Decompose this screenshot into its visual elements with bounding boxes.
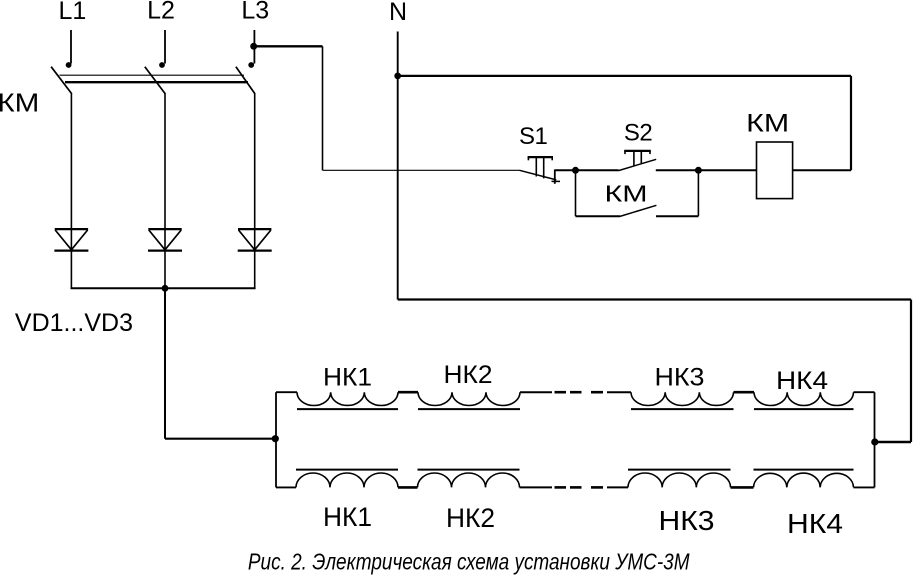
wire N right drop	[910, 300, 912, 443]
svg-text:КМ: КМ	[746, 110, 789, 138]
terminal L2	[147, 0, 175, 25]
wire N to heater bank	[875, 441, 911, 444]
svg-text:L1: L1	[58, 0, 86, 25]
wire S1 output	[555, 169, 576, 171]
label HK3 top	[655, 364, 705, 392]
wire L3 stub upper	[253, 30, 255, 46]
wire cathode bus	[71, 287, 256, 289]
wire coil input	[698, 169, 756, 171]
node cathode bus junction	[162, 285, 169, 292]
wire bottom row solid left	[520, 486, 553, 488]
svg-text:НК4: НК4	[787, 508, 843, 539]
label HK4 bottom	[787, 508, 843, 539]
heating element HK1 top	[297, 392, 398, 409]
wire L3 stub lower	[253, 46, 255, 63]
contactor KM blade L2	[145, 67, 166, 94]
label VD1...VD3	[15, 309, 133, 337]
label HK1 top	[323, 364, 372, 392]
svg-text:КМ: КМ	[605, 181, 648, 207]
wire N bottom run	[398, 298, 911, 300]
wire L3 column	[254, 94, 256, 289]
wire S2 input	[576, 169, 619, 171]
contactor KM blade L3	[236, 67, 255, 94]
diode VD2	[148, 229, 182, 251]
wire L3 branch vertical	[322, 46, 324, 170]
wire bottom row solid right	[607, 486, 628, 488]
svg-text:S1: S1	[519, 123, 548, 150]
node L1 fixed contact	[66, 62, 72, 68]
node junction S2-coil	[695, 167, 702, 174]
wire heater right rail	[874, 392, 876, 487]
terminal L3	[241, 0, 269, 25]
label HK2 bottom	[446, 503, 495, 533]
pushbutton S2 label	[624, 120, 653, 147]
heating element HK2 bottom	[418, 470, 520, 488]
svg-text:L2: L2	[147, 0, 175, 25]
wire bottom row link2	[731, 486, 754, 489]
wire heater left rail	[275, 392, 277, 487]
wire DC feed vertical	[164, 288, 166, 438]
node L3 branch junction	[250, 43, 257, 50]
heating element HK4 bottom	[754, 470, 854, 488]
svg-text:НК4: НК4	[776, 367, 828, 395]
pushbutton S1	[520, 157, 561, 184]
label HK1 bottom	[323, 502, 372, 532]
wire control feed	[323, 169, 520, 171]
svg-text:S2: S2	[624, 120, 653, 147]
wire L1 stub	[70, 30, 72, 64]
wire bottom row lead-in	[276, 486, 296, 488]
svg-text:НК2: НК2	[444, 361, 493, 389]
wire L1 column	[70, 94, 72, 289]
contactor KM blade L1	[51, 67, 72, 94]
node L3 fixed contact	[248, 62, 254, 68]
heating element HK3 top	[631, 392, 734, 409]
svg-text:Рис. 2. Электрическая схема ус: Рис. 2. Электрическая схема установки УМ…	[248, 549, 690, 575]
node heater left junction	[272, 435, 279, 442]
wire top row lead-out	[854, 391, 875, 393]
wire N vertical	[397, 76, 399, 300]
wire bottom row lead-out	[854, 486, 875, 488]
wire top row solid right	[607, 391, 631, 393]
terminal L1	[58, 0, 86, 25]
auxiliary contact KM	[576, 170, 699, 216]
svg-text:НК3: НК3	[659, 505, 715, 536]
auxiliary contact KM label	[605, 181, 648, 207]
diode VD3	[238, 229, 272, 251]
caption	[248, 549, 690, 575]
svg-text:L3: L3	[241, 0, 269, 25]
wire top row lead-in	[276, 391, 297, 393]
wire DC feed horizontal	[165, 438, 276, 440]
label HK2 top	[444, 361, 493, 389]
svg-text:НК3: НК3	[655, 364, 705, 392]
svg-text:НК2: НК2	[446, 503, 495, 533]
wire control right rail	[850, 76, 852, 170]
node N junction	[394, 73, 401, 80]
svg-text:НК1: НК1	[323, 364, 372, 392]
diode VD1	[54, 229, 88, 251]
node L2 fixed contact	[159, 62, 165, 68]
node heater right junction	[871, 438, 878, 445]
contactor KM linkage bar	[60, 75, 249, 82]
label HK4 top	[776, 367, 828, 395]
wire S2 output	[656, 169, 699, 171]
svg-text:VD1...VD3: VD1...VD3	[15, 309, 133, 337]
label HK3 bottom	[659, 505, 715, 536]
wire L2 stub	[164, 30, 166, 64]
svg-text:КМ: КМ	[0, 88, 39, 118]
heating element HK3 bottom	[628, 470, 731, 488]
coil KM label	[746, 110, 789, 138]
terminal N	[389, 0, 407, 26]
wire N stub	[397, 32, 399, 76]
heating element HK2 top	[418, 392, 520, 409]
node junction S1-S2	[572, 167, 579, 174]
heating element HK4 top	[754, 392, 854, 409]
contactor KM label	[0, 88, 39, 118]
wire top row solid left	[520, 391, 552, 393]
wire L3 branch horizontal	[254, 45, 323, 47]
wire bottom row link1	[398, 486, 418, 489]
wire top row dashed	[555, 391, 604, 394]
pushbutton S2	[619, 151, 657, 171]
wire L2 column	[164, 94, 166, 289]
wire top row link2	[734, 391, 755, 394]
wire top row link1	[398, 391, 418, 394]
wire bottom row dashed	[555, 486, 604, 489]
heating element HK1 bottom	[296, 470, 398, 488]
wire control top rail	[398, 75, 851, 77]
svg-text:НК1: НК1	[323, 502, 372, 532]
pushbutton S1 label	[519, 123, 548, 150]
svg-text:N: N	[389, 0, 407, 26]
coil KM	[757, 142, 793, 199]
wire coil output	[793, 169, 851, 171]
